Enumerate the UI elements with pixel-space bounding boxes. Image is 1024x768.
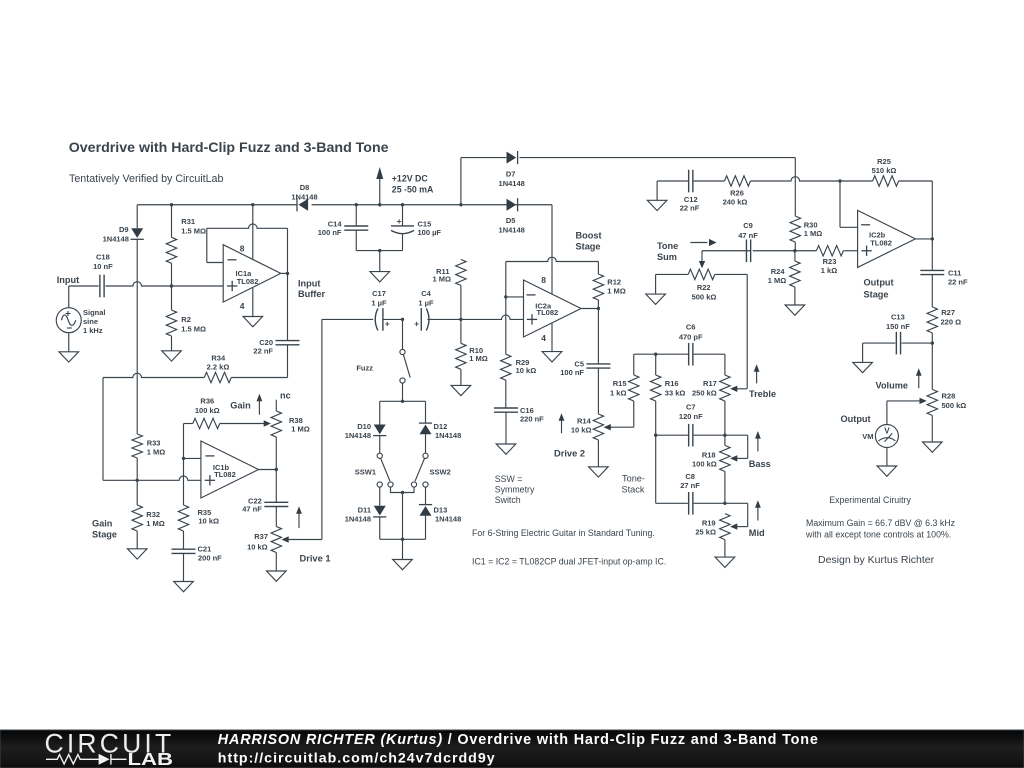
- svg-text:VM: VM: [862, 432, 873, 441]
- wire VM to ground: [886, 448, 888, 467]
- svg-text:R22: R22: [697, 283, 711, 292]
- wire R37 wiper: [288, 539, 322, 541]
- capacitor C11: [931, 239, 933, 271]
- wire diode network top: [380, 400, 426, 402]
- resistor R36: [183, 424, 185, 459]
- wire R22 to ground: [655, 274, 657, 294]
- svg-text:200 nF: 200 nF: [198, 554, 222, 563]
- capacitor C8: [688, 492, 690, 515]
- bass direction arrow: [757, 437, 759, 451]
- svg-text:500 kΩ: 500 kΩ: [942, 401, 967, 410]
- wire R17 wiper rail: [736, 388, 747, 390]
- svg-text:R36: R36: [200, 396, 214, 405]
- svg-text:1N4148: 1N4148: [435, 515, 461, 524]
- wire R28 wiper to VM: [887, 400, 921, 402]
- wire R28 to ground: [931, 415, 933, 442]
- svg-text:100 kΩ: 100 kΩ: [195, 406, 220, 415]
- svg-text:For 6-String Electric Guitar i: For 6-String Electric Guitar in Standard…: [472, 528, 655, 538]
- svg-text:C18: C18: [96, 253, 110, 262]
- svg-text:LAB: LAB: [128, 749, 174, 768]
- op-amp IC1b: [201, 441, 259, 498]
- resistor R31: [171, 205, 173, 238]
- svg-text:Volume: Volume: [876, 380, 909, 390]
- svg-text:510 kΩ: 510 kΩ: [872, 166, 897, 175]
- svg-text:TL082: TL082: [214, 470, 236, 479]
- svg-text:8: 8: [541, 275, 546, 285]
- treble direction arrow: [756, 370, 758, 383]
- svg-text:10 kΩ: 10 kΩ: [571, 426, 592, 435]
- wire rail corner down to R30: [794, 158, 796, 217]
- svg-text:R16: R16: [665, 379, 679, 388]
- svg-text:Output: Output: [841, 414, 871, 424]
- svg-text:Experimental Ciruitry: Experimental Ciruitry: [829, 495, 911, 505]
- gain direction arrow: [258, 400, 260, 415]
- svg-text:8: 8: [240, 244, 245, 254]
- wire IC1b output node: [259, 469, 277, 471]
- ground below source: [59, 352, 79, 362]
- capacitor C16: [505, 380, 507, 408]
- wire R31 to input node: [171, 263, 173, 286]
- resistor R2: [171, 286, 173, 310]
- svg-text:22 nF: 22 nF: [253, 347, 273, 356]
- svg-text:1.5 MΩ: 1.5 MΩ: [181, 325, 206, 334]
- diode D11: [379, 487, 381, 506]
- switch SW-Fuzz: [402, 319, 404, 349]
- ground left of C12: [647, 200, 667, 210]
- svg-text:R31: R31: [181, 217, 195, 226]
- svg-text:1 µF: 1 µF: [371, 299, 387, 308]
- ground below R14: [589, 467, 609, 477]
- source V1 signal sine: [56, 308, 81, 333]
- svg-text:1N4148: 1N4148: [499, 226, 525, 235]
- diode D5: [507, 199, 517, 211]
- wire diode network bottom: [380, 538, 426, 540]
- logo resistor-diode glyph: [46, 754, 127, 765]
- svg-text:Stage: Stage: [864, 289, 889, 299]
- op-amp IC2a: [524, 280, 582, 337]
- capacitor C17 polarized: [375, 308, 378, 330]
- wire C9 to R30 node: [753, 250, 795, 252]
- svg-text:1 MΩ: 1 MΩ: [469, 354, 488, 363]
- wire D5 to IC2a pin8: [551, 205, 553, 295]
- resistor R10: [460, 319, 462, 343]
- svg-text:with all except tone controls: with all except tone controls at 100%.: [805, 530, 951, 540]
- wire D10 to SSW1: [379, 436, 381, 454]
- svg-text:R26: R26: [730, 189, 744, 198]
- node +12V supply arrow: [379, 174, 381, 205]
- svg-text:Input: Input: [298, 278, 320, 288]
- svg-text:Fuzz: Fuzz: [356, 364, 373, 373]
- capacitor C13: [863, 342, 896, 344]
- svg-text:C8: C8: [685, 472, 695, 481]
- svg-text:2.2 kΩ: 2.2 kΩ: [207, 362, 230, 371]
- drive 1 direction arrow: [298, 512, 300, 528]
- svg-text:R37: R37: [254, 532, 268, 541]
- ground below R32: [127, 549, 147, 559]
- svg-text:R19: R19: [702, 519, 716, 528]
- diode D8: [298, 199, 308, 211]
- svg-text:1N4148: 1N4148: [435, 431, 461, 440]
- svg-text:100 nF: 100 nF: [560, 368, 584, 377]
- svg-text:Drive 2: Drive 2: [554, 448, 585, 458]
- wire IC1a output node: [281, 272, 288, 274]
- resistor R30: [790, 216, 800, 242]
- svg-text:+: +: [385, 318, 390, 328]
- resistor R11: [456, 259, 466, 285]
- svg-text:Tentatively Verified by Circui: Tentatively Verified by CircuitLab: [69, 173, 224, 185]
- svg-text:100 nF: 100 nF: [318, 228, 342, 237]
- svg-text:10 kΩ: 10 kΩ: [516, 366, 537, 375]
- svg-text:1 kΩ: 1 kΩ: [821, 266, 837, 275]
- svg-text:1 MΩ: 1 MΩ: [432, 274, 451, 283]
- wire to IC1b plus input: [103, 476, 201, 480]
- potentiometer R22: [656, 273, 689, 275]
- capacitor C5: [597, 309, 599, 364]
- svg-text:R33: R33: [147, 439, 161, 448]
- wire switch common connector: [391, 487, 415, 492]
- svg-text:22 nF: 22 nF: [948, 277, 968, 286]
- svg-text:HARRISON RICHTER (Kurtus) / Ov: HARRISON RICHTER (Kurtus) / Overdrive wi…: [218, 732, 819, 748]
- capacitor C14: [355, 205, 357, 226]
- wire R24 to ground: [794, 287, 796, 305]
- svg-text:1 MΩ: 1 MΩ: [291, 425, 310, 434]
- svg-text:100 µF: 100 µF: [418, 228, 442, 237]
- wire IC2b minus input: [839, 181, 841, 227]
- capacitor C4 polarized: [420, 308, 422, 331]
- svg-text:V: V: [884, 427, 890, 436]
- svg-text:Switch: Switch: [495, 495, 521, 505]
- resistor R15: [633, 354, 635, 375]
- potentiometer R38: [275, 400, 277, 411]
- volume direction arrow: [918, 374, 920, 388]
- svg-text:http://circuitlab.com/ch24v7dc: http://circuitlab.com/ch24v7dcrdd9y: [218, 751, 496, 767]
- svg-text:R23: R23: [823, 257, 837, 266]
- wire IC1b minus input: [184, 457, 201, 459]
- node dots on rail: [170, 203, 173, 206]
- capacitor C7: [688, 424, 690, 447]
- wire R14 to ground: [597, 440, 599, 467]
- svg-text:C13: C13: [891, 313, 905, 322]
- capacitor C20: [287, 273, 289, 340]
- potentiometer R17: [724, 354, 726, 375]
- wire upper rail to D7: [460, 158, 462, 205]
- svg-text:Tone-: Tone-: [622, 474, 645, 484]
- svg-text:1 µF: 1 µF: [418, 299, 434, 308]
- ground below R10: [451, 385, 471, 395]
- ground below R37: [267, 571, 287, 581]
- wire tone stack top line: [634, 353, 688, 355]
- diode D10: [374, 425, 386, 435]
- capacitor C22: [275, 470, 277, 503]
- resistor R24: [794, 251, 796, 261]
- svg-text:25 -50 mA: 25 -50 mA: [392, 185, 434, 195]
- capacitor C18: [99, 275, 101, 298]
- ground below C14/C15: [370, 272, 390, 282]
- svg-text:Maximum Gain = 66.7 dBV @ 6.3: Maximum Gain = 66.7 dBV @ 6.3 kHz: [806, 518, 955, 528]
- svg-text:R25: R25: [877, 157, 891, 166]
- svg-text:R17: R17: [703, 379, 717, 388]
- wire IC2a output node: [581, 308, 598, 310]
- wire R2 to ground: [171, 336, 173, 351]
- svg-text:TL082: TL082: [237, 277, 259, 286]
- ground below C16: [496, 444, 516, 454]
- ground below VM: [877, 466, 897, 476]
- svg-text:sine: sine: [83, 317, 98, 326]
- svg-text:+12V DC: +12V DC: [392, 173, 429, 183]
- resistor R33: [132, 434, 142, 458]
- resistor R27: [927, 307, 937, 333]
- wire IC2a feedback: [505, 262, 507, 297]
- svg-text:TL082: TL082: [537, 308, 559, 317]
- svg-text:1 MΩ: 1 MΩ: [768, 276, 787, 285]
- capacitor C6: [688, 343, 690, 366]
- wire D9 to R33: [136, 239, 138, 434]
- pin 4 of IC1a: [252, 288, 254, 317]
- svg-text:+: +: [414, 318, 419, 328]
- svg-text:500 kΩ: 500 kΩ: [692, 293, 717, 302]
- resistor R35: [183, 458, 185, 505]
- diode D9: [136, 205, 138, 228]
- svg-text:120 nF: 120 nF: [679, 412, 703, 421]
- resistor R34: [231, 377, 287, 379]
- wire C18 to IC1a input: [105, 282, 223, 286]
- svg-text:C9: C9: [743, 221, 753, 230]
- svg-text:C21: C21: [198, 545, 212, 554]
- svg-text:250 kΩ: 250 kΩ: [692, 389, 717, 398]
- svg-text:220 Ω: 220 Ω: [941, 318, 962, 327]
- wire R37 to ground: [275, 553, 277, 572]
- resistor R12: [593, 274, 603, 300]
- wire C9 to R22 wiper: [701, 251, 703, 262]
- svg-text:1 MΩ: 1 MΩ: [804, 229, 823, 238]
- svg-text:Gain: Gain: [92, 519, 113, 529]
- svg-text:R32: R32: [146, 510, 160, 519]
- wire R10 to ground: [460, 369, 462, 385]
- wire R19 to ground: [724, 540, 726, 558]
- svg-text:Drive 1: Drive 1: [300, 553, 331, 563]
- resistor R26: [694, 180, 725, 182]
- diode D12: [420, 425, 432, 435]
- wire R36 to R38 wiper: [220, 423, 265, 425]
- mid direction arrow: [757, 506, 759, 520]
- svg-text:SSW2: SSW2: [430, 468, 451, 477]
- switch SSW2: [423, 453, 428, 458]
- svg-text:R34: R34: [211, 354, 226, 363]
- svg-text:1N4148: 1N4148: [345, 515, 371, 524]
- svg-text:C4: C4: [421, 289, 431, 298]
- svg-text:Bass: Bass: [749, 459, 771, 469]
- wire IC2a minus input: [506, 296, 524, 298]
- ground below R19: [715, 557, 735, 567]
- wire main +12V rail: [137, 204, 297, 206]
- svg-text:Stack: Stack: [622, 485, 645, 495]
- potentiometer R37: [271, 527, 281, 553]
- ground below IC1a: [243, 317, 263, 327]
- svg-text:D5: D5: [506, 216, 516, 225]
- svg-text:IC1 = IC2 = TL082CP dual JFET-: IC1 = IC2 = TL082CP dual JFET-input op-a…: [472, 557, 666, 567]
- svg-text:240 kΩ: 240 kΩ: [723, 198, 748, 207]
- svg-text:C11: C11: [948, 269, 961, 278]
- svg-text:D10: D10: [357, 422, 371, 431]
- tone sum direction arrow: [690, 242, 707, 244]
- svg-text:Mid: Mid: [749, 528, 765, 538]
- svg-text:10 kΩ: 10 kΩ: [198, 517, 219, 526]
- wire C8 line: [656, 502, 688, 504]
- svg-text:470 pF: 470 pF: [679, 333, 703, 342]
- capacitor C12: [657, 180, 688, 182]
- capacitor C21: [183, 531, 185, 549]
- ground below R2: [162, 351, 182, 361]
- svg-text:SSW =: SSW =: [495, 474, 523, 484]
- ground below diode network: [393, 560, 413, 570]
- svg-text:+: +: [397, 216, 402, 226]
- svg-text:R12: R12: [607, 278, 621, 287]
- svg-text:D8: D8: [300, 183, 310, 192]
- svg-text:Stage: Stage: [92, 530, 117, 540]
- svg-text:25 kΩ: 25 kΩ: [695, 527, 716, 536]
- svg-text:Design by Kurtus Richter: Design by Kurtus Richter: [818, 554, 935, 566]
- svg-text:C6: C6: [686, 323, 696, 332]
- svg-text:1N4148: 1N4148: [345, 431, 371, 440]
- diode D7: [507, 152, 517, 164]
- svg-text:4: 4: [541, 333, 546, 343]
- svg-text:27 nF: 27 nF: [680, 481, 700, 490]
- svg-text:R24: R24: [771, 267, 786, 276]
- potentiometer R19: [720, 514, 730, 540]
- op-amp IC1a: [223, 245, 281, 302]
- svg-text:4: 4: [240, 301, 245, 311]
- wire R33 to node: [136, 458, 138, 480]
- svg-text:22 nF: 22 nF: [680, 203, 700, 212]
- svg-text:1 kHz: 1 kHz: [83, 326, 103, 335]
- resistor R25: [873, 176, 899, 186]
- svg-text:Sum: Sum: [657, 252, 677, 262]
- svg-text:100 kΩ: 100 kΩ: [692, 459, 717, 468]
- svg-text:Treble: Treble: [749, 389, 776, 399]
- wire R19 wiper: [736, 526, 748, 528]
- resistor R29: [505, 297, 507, 354]
- svg-text:33 kΩ: 33 kΩ: [665, 389, 686, 398]
- svg-text:150 nF: 150 nF: [886, 322, 910, 331]
- svg-text:R28: R28: [942, 391, 956, 400]
- svg-text:Overdrive with Hard-Clip Fuzz: Overdrive with Hard-Clip Fuzz and 3-Band…: [69, 140, 389, 156]
- wire D12 to SSW2: [425, 434, 427, 453]
- wire tone sum node: [702, 250, 751, 252]
- footer bar: [0, 730, 1024, 768]
- wire C14/C15 to ground: [356, 250, 402, 252]
- svg-text:D12: D12: [434, 422, 448, 431]
- drive 2 direction arrow: [561, 419, 563, 433]
- svg-text:nc: nc: [280, 390, 291, 400]
- wire R26 to IC2b minus node: [751, 177, 841, 181]
- svg-text:1N4148: 1N4148: [499, 179, 525, 188]
- ground below IC2a: [542, 352, 562, 362]
- wire R25 to output node: [931, 181, 933, 239]
- svg-text:R2: R2: [181, 315, 191, 324]
- resistor R23: [795, 250, 817, 252]
- wire R32 to ground: [136, 531, 138, 549]
- svg-text:D11: D11: [358, 506, 371, 515]
- ground below C21: [174, 582, 194, 592]
- svg-text:D13: D13: [434, 506, 448, 515]
- wire fuzz switch to diode network: [402, 383, 404, 401]
- wire IC2b output node: [915, 238, 932, 240]
- svg-text:Tone: Tone: [657, 241, 678, 251]
- capacitor C9: [745, 239, 747, 262]
- svg-text:C17: C17: [372, 289, 386, 298]
- svg-text:R15: R15: [613, 379, 627, 388]
- svg-text:47 nF: 47 nF: [242, 505, 262, 514]
- svg-text:1 kΩ: 1 kΩ: [610, 389, 626, 398]
- wire R14 wiper to R15: [610, 426, 634, 428]
- resistor R16: [655, 354, 657, 375]
- wire R18 to C8 line: [724, 471, 726, 503]
- resistor R32: [136, 480, 138, 505]
- svg-text:C7: C7: [686, 402, 696, 411]
- svg-text:SSW1: SSW1: [355, 468, 376, 477]
- ground below R22: [646, 294, 666, 304]
- wire C7 line: [656, 434, 688, 436]
- wire IC1a feedback: [206, 228, 208, 262]
- potentiometer R18: [724, 435, 726, 445]
- svg-text:1.5 MΩ: 1.5 MΩ: [181, 227, 206, 236]
- switch SSW1: [377, 453, 382, 458]
- svg-text:D9: D9: [119, 225, 129, 234]
- svg-text:10 kΩ: 10 kΩ: [247, 543, 268, 552]
- svg-text:Stage: Stage: [576, 242, 601, 252]
- svg-text:C14: C14: [328, 220, 343, 229]
- svg-text:10 nF: 10 nF: [93, 262, 113, 271]
- svg-text:47 nF: 47 nF: [738, 231, 758, 240]
- svg-text:1 MΩ: 1 MΩ: [147, 448, 166, 457]
- svg-text:Output: Output: [864, 278, 894, 288]
- wire source to ground: [68, 333, 70, 352]
- svg-text:Symmetry: Symmetry: [495, 485, 535, 495]
- ground below R28: [923, 442, 943, 452]
- op-amp IC2b: [858, 210, 916, 267]
- svg-text:C15: C15: [418, 220, 432, 229]
- pin 8 of IC1a: [252, 205, 254, 259]
- svg-text:R27: R27: [941, 308, 955, 317]
- voltmeter VM: [875, 425, 898, 448]
- svg-text:Signal: Signal: [83, 308, 106, 317]
- svg-text:Buffer: Buffer: [298, 289, 325, 299]
- ground left of C13: [862, 343, 864, 362]
- svg-text:1N4148: 1N4148: [103, 234, 129, 243]
- svg-text:1N4148: 1N4148: [291, 192, 317, 201]
- svg-text:220 nF: 220 nF: [520, 415, 544, 424]
- wire R18 wiper: [736, 457, 748, 459]
- pin 4 of IC2a: [551, 323, 553, 352]
- svg-text:1 MΩ: 1 MΩ: [607, 287, 626, 296]
- wire input to C18: [69, 285, 99, 287]
- svg-text:TL082: TL082: [870, 239, 892, 248]
- svg-text:1 MΩ: 1 MΩ: [146, 519, 165, 528]
- diode D13: [425, 487, 427, 505]
- potentiometer R28: [931, 343, 933, 389]
- capacitor C15 polarized: [402, 205, 404, 226]
- ground below R24: [785, 305, 805, 315]
- svg-text:Input: Input: [57, 275, 79, 285]
- svg-text:Boost: Boost: [576, 230, 602, 240]
- svg-text:R14: R14: [577, 416, 592, 425]
- wire R34 to gain stage: [103, 373, 204, 377]
- wire C4 to IC2a: [427, 315, 523, 319]
- svg-text:D7: D7: [506, 170, 516, 179]
- potentiometer R14: [593, 414, 603, 440]
- svg-text:Gain: Gain: [230, 401, 251, 411]
- wire drive1 riser: [321, 319, 323, 539]
